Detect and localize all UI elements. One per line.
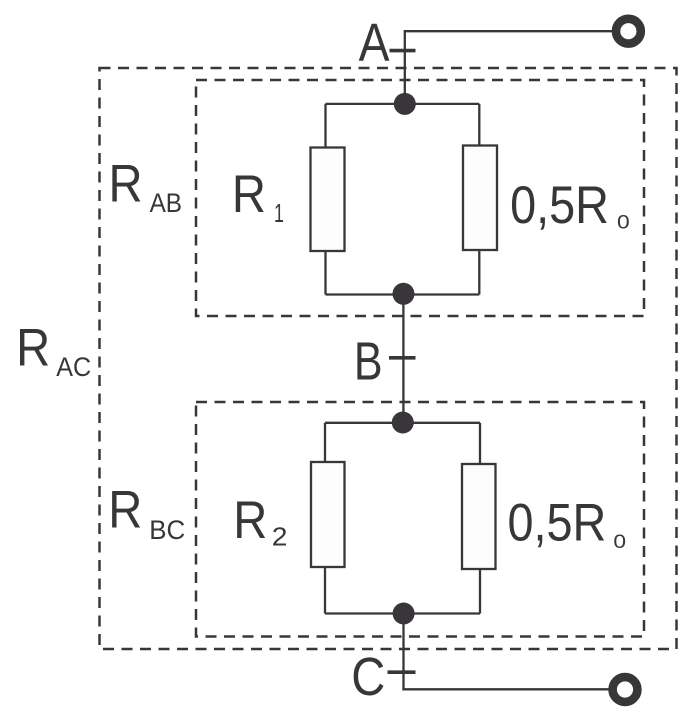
svg-text:1: 1 (274, 199, 284, 228)
junction dot box1 bottom (393, 283, 415, 305)
wire top horizontal (405, 30, 612, 32)
label R1 (232, 163, 266, 223)
resistor 0,5R0 upper (463, 146, 497, 251)
label R_AC (16, 317, 50, 377)
node C label (351, 646, 385, 707)
svg-text:0: 0 (613, 532, 626, 553)
label R2 (233, 489, 267, 549)
svg-text:R: R (108, 479, 142, 539)
wire box1 right branch lower (478, 250, 480, 295)
node A tick (390, 49, 416, 53)
wire box1 left branch upper (324, 104, 326, 148)
resistor R2 (311, 462, 345, 567)
resistor R1 (311, 148, 345, 252)
node B tick (389, 356, 416, 360)
svg-text:R: R (109, 153, 143, 213)
junction dot box2 top (392, 412, 414, 434)
svg-text:R: R (232, 163, 266, 223)
svg-text:2: 2 (272, 522, 288, 552)
wire node C vertical (402, 614, 404, 690)
wire node B vertical (402, 295, 404, 423)
svg-text:0,5R: 0,5R (508, 493, 607, 552)
label 0,5R0 upper (510, 175, 609, 234)
junction dot node A (394, 93, 416, 115)
svg-text:R: R (16, 317, 50, 377)
resistor 0,5R0 lower (462, 464, 496, 569)
label R_BC (108, 479, 142, 539)
wire box2 right branch lower (479, 569, 481, 614)
label R_AB (109, 153, 143, 213)
terminal bottom right (613, 677, 638, 702)
inner dashed box R_AB (196, 80, 644, 316)
svg-text:0: 0 (617, 212, 630, 233)
node A label (359, 13, 390, 73)
label 0,5R0 lower (508, 493, 607, 552)
outer dashed box R_AC (100, 68, 677, 649)
svg-text:R: R (233, 489, 267, 549)
wire box1 left branch lower (324, 251, 326, 295)
terminal top right (616, 19, 641, 44)
inner dashed box R_BC (196, 402, 644, 637)
junction dot box2 bottom / node C (393, 603, 415, 625)
wire box2 left branch upper (324, 423, 326, 462)
wire box1 bottom rail (326, 293, 480, 295)
wire box2 top rail (325, 422, 480, 424)
svg-text:B: B (354, 332, 383, 392)
node C tick (388, 670, 416, 674)
wire box1 top rail (326, 103, 480, 105)
svg-text:BC: BC (149, 515, 185, 546)
svg-text:0,5R: 0,5R (510, 175, 609, 234)
svg-text:C: C (351, 646, 385, 707)
wire bottom horizontal (402, 688, 609, 690)
svg-text:AC: AC (56, 351, 91, 382)
wire node A vertical (404, 30, 406, 104)
node B label (354, 332, 383, 392)
wire box2 bottom rail (325, 612, 480, 614)
wire box2 left branch lower (324, 567, 326, 614)
svg-text:A: A (359, 13, 390, 73)
svg-text:AB: AB (150, 189, 182, 218)
wire box2 right branch upper (479, 423, 481, 464)
wire box1 right branch upper (478, 104, 480, 146)
